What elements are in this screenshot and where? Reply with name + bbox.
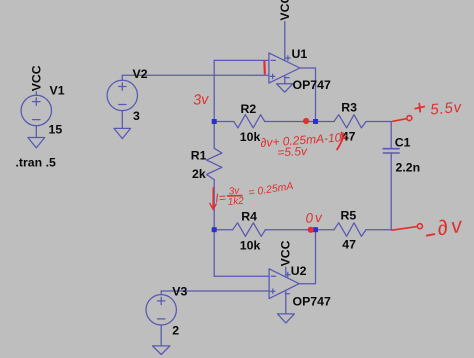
annotation fraction bar (3v/1k2) — [228, 195, 243, 197]
op-amp U2 — [269, 269, 299, 299]
svg-text:C1: C1 — [395, 136, 411, 150]
annotation open circle terminal top — [407, 116, 412, 121]
U1 V+ supply stub — [284, 22, 286, 61]
svg-text:10k: 10k — [240, 130, 261, 144]
svg-text:R1: R1 — [191, 148, 207, 162]
resistor R3 — [316, 115, 392, 128]
op-amp U1 — [269, 53, 300, 83]
svg-text:.tran .5: .tran .5 — [16, 155, 56, 169]
svg-text:∂v: ∂v — [436, 213, 467, 240]
wire to U2 inverting input — [214, 275, 269, 277]
annotation red dot at R2/R3 node — [303, 118, 309, 124]
wire U2 output — [299, 230, 315, 284]
svg-text:V1: V1 — [50, 84, 65, 98]
annotation red line to +5.5V terminal — [393, 119, 407, 122]
svg-text:R3: R3 — [341, 100, 357, 114]
svg-text:V2: V2 — [133, 67, 148, 81]
svg-text:VCC: VCC — [278, 0, 292, 21]
svg-text:0v: 0v — [305, 210, 324, 226]
svg-text:1k2: 1k2 — [227, 196, 244, 208]
node junction R2/R1/U1- — [212, 119, 217, 124]
svg-text:2.2n: 2.2n — [396, 161, 421, 175]
annotation red dot at 0V node — [308, 227, 314, 233]
voltage source V2 — [107, 75, 137, 128]
resistor R4 — [214, 223, 315, 237]
svg-text:47: 47 — [342, 238, 356, 252]
wire left vertical upper — [213, 60, 215, 148]
wire U1 inverting input — [214, 59, 269, 61]
svg-text:R2: R2 — [241, 102, 257, 116]
annotation minus sign of -2V — [427, 234, 435, 235]
svg-text:3: 3 — [133, 109, 140, 123]
svg-text:2: 2 — [172, 324, 179, 338]
node junction U1 out/R2/R3 — [313, 119, 318, 124]
svg-text:R5: R5 — [341, 209, 357, 223]
svg-text:OP747: OP747 — [293, 294, 331, 308]
svg-text:2k: 2k — [192, 167, 206, 181]
ground (V1) — [28, 138, 45, 148]
ground (V2) — [114, 128, 131, 138]
U2 V+ supply stub — [285, 267, 287, 277]
annotation strike after 10k — [337, 133, 342, 150]
voltage source V1 — [21, 92, 51, 138]
U2 V- stub — [285, 291, 287, 314]
wire left vertical lower — [213, 180, 215, 277]
voltage source V3 — [146, 291, 176, 346]
svg-text:U2: U2 — [291, 264, 307, 278]
annotation handwritten plus sign — [415, 104, 424, 112]
resistor R1 — [207, 148, 222, 179]
svg-text:V3: V3 — [172, 284, 187, 298]
annotation red line to -2V terminal — [392, 227, 417, 231]
ground (U1 V-) — [277, 84, 293, 92]
svg-text:10k: 10k — [240, 239, 261, 253]
resistor R2 — [214, 115, 315, 128]
svg-text:R4: R4 — [241, 210, 257, 224]
wire U1 output — [300, 68, 316, 122]
U1 V- stub — [284, 76, 286, 84]
svg-text:=5.5v: =5.5v — [277, 144, 308, 160]
capacitor C1 — [383, 122, 399, 230]
node junction R1/R4/U2- — [212, 227, 217, 232]
svg-text:3v: 3v — [193, 92, 210, 109]
node 0V junction R4/R5/U2 out — [313, 227, 318, 232]
annotation current arrow on R1 branch — [210, 188, 216, 210]
svg-text:OP747: OP747 — [293, 78, 331, 92]
ground (U2 V-) — [278, 314, 295, 323]
ground (V3) — [153, 346, 170, 355]
svg-text:U1: U1 — [292, 47, 308, 61]
resistor R5 — [316, 223, 392, 237]
svg-text:5.5v: 5.5v — [430, 99, 464, 119]
annotation open circle terminal bottom — [417, 224, 422, 229]
wire V3 to U2 noninverting input — [161, 290, 269, 292]
svg-text:15: 15 — [49, 123, 63, 137]
annotation red tick at U1 inputs — [263, 62, 266, 74]
svg-text:VCC: VCC — [279, 240, 293, 266]
svg-text:VCC: VCC — [29, 65, 43, 91]
svg-text:I=: I= — [215, 191, 227, 206]
wire V2 to U1 noninverting input — [122, 74, 269, 76]
